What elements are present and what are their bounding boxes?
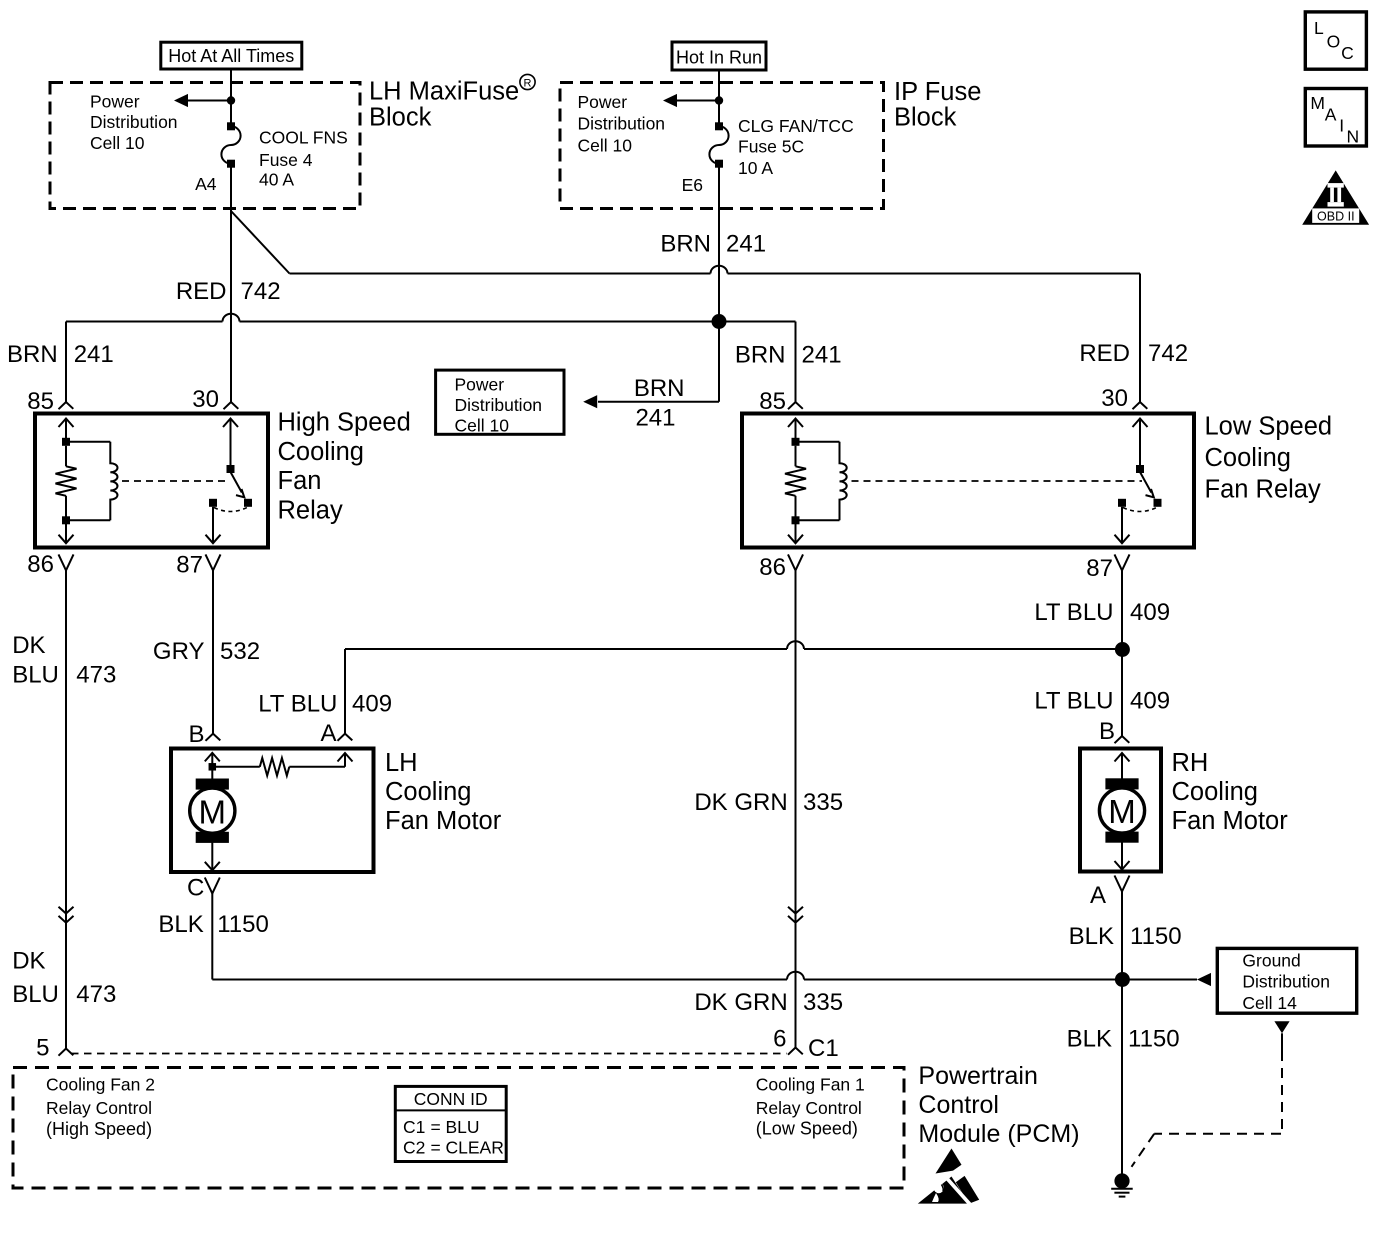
svg-text:409: 409 — [352, 690, 392, 717]
svg-text:M: M — [199, 793, 227, 830]
svg-text:RED: RED — [176, 278, 227, 305]
svg-text:M: M — [1108, 793, 1136, 830]
svg-text:RED: RED — [1079, 340, 1130, 367]
svg-text:241: 241 — [635, 404, 675, 431]
svg-text:GRY: GRY — [153, 638, 205, 665]
svg-text:87: 87 — [176, 552, 203, 579]
svg-text:Power: Power — [455, 374, 505, 394]
svg-text:OBD II: OBD II — [1317, 209, 1355, 223]
svg-text:86: 86 — [27, 551, 54, 578]
svg-text:Distribution: Distribution — [90, 112, 178, 132]
svg-text:Cooling Fan 2: Cooling Fan 2 — [46, 1075, 155, 1095]
svg-text:473: 473 — [76, 662, 116, 689]
svg-text:BRN: BRN — [660, 231, 711, 258]
svg-text:BLK: BLK — [158, 911, 203, 938]
svg-text:Fan: Fan — [278, 467, 322, 495]
svg-text:1150: 1150 — [1128, 1025, 1180, 1052]
svg-text:COOL FNS: COOL FNS — [259, 128, 348, 148]
svg-text:5: 5 — [36, 1035, 49, 1062]
svg-text:Cooling: Cooling — [385, 778, 471, 806]
svg-text:Hot In Run: Hot In Run — [676, 48, 762, 68]
svg-text:E6: E6 — [682, 175, 703, 195]
svg-text:R: R — [524, 78, 532, 90]
svg-text:DK GRN: DK GRN — [694, 789, 787, 816]
svg-text:LT BLU: LT BLU — [1034, 599, 1113, 626]
svg-text:Fuse 4: Fuse 4 — [259, 150, 313, 170]
svg-text:DK: DK — [12, 632, 45, 659]
svg-text:Power: Power — [578, 92, 628, 112]
svg-text:Powertrain: Powertrain — [918, 1062, 1038, 1090]
svg-text:BRN: BRN — [735, 341, 786, 368]
svg-text:Distribution: Distribution — [1242, 972, 1330, 992]
svg-text:Cell 10: Cell 10 — [578, 136, 633, 156]
svg-text:85: 85 — [759, 388, 786, 415]
svg-text:N: N — [1347, 126, 1360, 146]
svg-text:Fan Motor: Fan Motor — [385, 807, 502, 835]
svg-text:BLK: BLK — [1069, 923, 1114, 950]
svg-text:O: O — [1327, 32, 1341, 52]
svg-text:Power: Power — [90, 92, 140, 112]
svg-text:Relay Control: Relay Control — [46, 1098, 152, 1118]
svg-text:M: M — [1310, 93, 1325, 113]
svg-text:Distribution: Distribution — [455, 395, 543, 415]
svg-text:1150: 1150 — [1130, 923, 1182, 950]
svg-text:LH MaxiFuse: LH MaxiFuse — [369, 78, 519, 106]
svg-text:409: 409 — [1130, 599, 1170, 626]
svg-text:335: 335 — [803, 789, 843, 816]
svg-text:C1: C1 — [403, 1117, 425, 1137]
svg-text:Cell 10: Cell 10 — [90, 133, 145, 153]
svg-text:1150: 1150 — [217, 911, 269, 938]
svg-text:=: = — [431, 1117, 441, 1137]
svg-text:RH: RH — [1172, 749, 1209, 777]
svg-text:BLU: BLU — [446, 1117, 480, 1137]
svg-text:Control: Control — [918, 1091, 999, 1119]
svg-text:BLK: BLK — [1067, 1025, 1112, 1052]
svg-text:Cell 10: Cell 10 — [455, 415, 510, 435]
svg-text:Distribution: Distribution — [578, 114, 666, 134]
svg-text:30: 30 — [1101, 385, 1128, 412]
svg-text:CLEAR: CLEAR — [446, 1138, 504, 1158]
svg-text:Cell 14: Cell 14 — [1242, 993, 1297, 1013]
svg-text:Hot At All Times: Hot At All Times — [168, 46, 294, 66]
svg-text:C2: C2 — [403, 1138, 425, 1158]
svg-text:409: 409 — [1130, 687, 1170, 714]
svg-text:Relay: Relay — [278, 497, 343, 525]
svg-text:Cooling: Cooling — [1172, 778, 1258, 806]
svg-text:LT BLU: LT BLU — [1034, 687, 1113, 714]
svg-text:DK GRN: DK GRN — [694, 989, 787, 1016]
svg-text:C1: C1 — [808, 1035, 839, 1062]
svg-text:241: 241 — [74, 341, 114, 368]
svg-text:40 A: 40 A — [259, 170, 294, 190]
svg-text:A: A — [1325, 105, 1337, 125]
svg-text:Cooling Fan 1: Cooling Fan 1 — [756, 1075, 865, 1095]
svg-text:IP Fuse: IP Fuse — [894, 78, 981, 106]
svg-text:(High Speed): (High Speed) — [46, 1119, 152, 1139]
svg-text:BRN: BRN — [634, 375, 685, 402]
svg-text:241: 241 — [802, 341, 842, 368]
svg-text:DK: DK — [12, 948, 45, 975]
svg-text:Block: Block — [894, 104, 957, 132]
svg-text:Cooling: Cooling — [1205, 444, 1291, 472]
svg-text:Low Speed: Low Speed — [1205, 413, 1333, 441]
svg-text:473: 473 — [76, 981, 116, 1008]
svg-text:30: 30 — [192, 386, 219, 413]
svg-text:A4: A4 — [195, 174, 217, 194]
svg-text:CONN ID: CONN ID — [414, 1089, 488, 1109]
svg-text:LT BLU: LT BLU — [258, 690, 337, 717]
svg-text:A: A — [320, 720, 336, 747]
svg-text:BLU: BLU — [12, 662, 59, 689]
svg-text:Cooling: Cooling — [278, 438, 364, 466]
svg-text:CLG FAN/TCC: CLG FAN/TCC — [738, 116, 854, 136]
svg-text:L: L — [1314, 18, 1324, 38]
svg-text:Ground: Ground — [1242, 950, 1300, 970]
svg-text:Block: Block — [369, 104, 432, 132]
svg-text:Module (PCM): Module (PCM) — [918, 1120, 1079, 1148]
svg-text:B: B — [188, 721, 204, 748]
svg-text:(Low Speed): (Low Speed) — [756, 1119, 858, 1139]
svg-text:BRN: BRN — [7, 341, 58, 368]
svg-text:BLU: BLU — [12, 981, 59, 1008]
svg-text:Relay Control: Relay Control — [756, 1098, 862, 1118]
svg-text:I: I — [1339, 116, 1344, 136]
svg-text:742: 742 — [241, 278, 281, 305]
svg-text:335: 335 — [803, 989, 843, 1016]
svg-text:C: C — [187, 875, 204, 902]
svg-text:Fan Relay: Fan Relay — [1205, 475, 1321, 503]
svg-text:10 A: 10 A — [738, 158, 773, 178]
svg-text:Fan Motor: Fan Motor — [1172, 807, 1289, 835]
svg-text:6: 6 — [773, 1026, 786, 1053]
svg-text:=: = — [431, 1138, 441, 1158]
svg-text:B: B — [1099, 718, 1115, 745]
svg-text:Fuse 5C: Fuse 5C — [738, 137, 804, 157]
svg-text:85: 85 — [27, 388, 54, 415]
svg-text:LH: LH — [385, 749, 418, 777]
svg-text:241: 241 — [726, 231, 766, 258]
svg-text:532: 532 — [220, 638, 260, 665]
svg-text:742: 742 — [1148, 340, 1188, 367]
svg-text:C: C — [1341, 43, 1354, 63]
svg-text:86: 86 — [759, 554, 786, 581]
svg-text:A: A — [1090, 882, 1106, 909]
svg-text:High Speed: High Speed — [278, 409, 411, 437]
svg-text:87: 87 — [1086, 555, 1113, 582]
